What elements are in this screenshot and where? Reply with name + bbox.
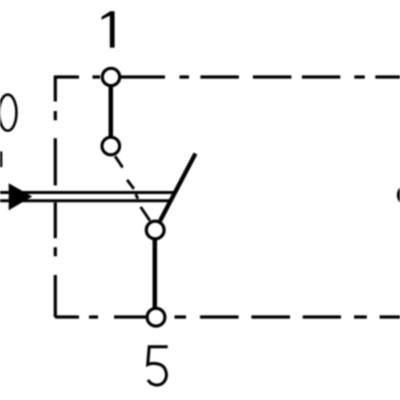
pivot contact circle: [146, 221, 164, 239]
edge fragment left: [0, 151, 2, 167]
terminal circle 1: [102, 68, 119, 85]
terminal circle right (cropped at edge): [398, 186, 400, 204]
wire pivot to terminal 5: [153, 239, 158, 308]
enclosure bottom border (dash-dot): [55, 315, 400, 318]
enclosure left border (dash-dot): [54, 76, 57, 318]
actuator link top line: [0, 191, 174, 194]
terminal circle 5: [147, 308, 165, 326]
dashed contact line (open position): [115, 156, 150, 220]
switch lever: [160, 154, 195, 221]
label 0 (clipped at left edge): [0, 95, 16, 131]
fixed contact circle: [102, 137, 120, 155]
enclosure top border (dash-dot): [55, 75, 400, 78]
terminal 5 label: [148, 347, 168, 385]
actuator arrow: [9, 183, 33, 210]
wire terminal 1 to fixed contact: [109, 86, 114, 138]
terminal 1 label: [102, 11, 115, 47]
actuator link bottom line: [0, 199, 169, 202]
